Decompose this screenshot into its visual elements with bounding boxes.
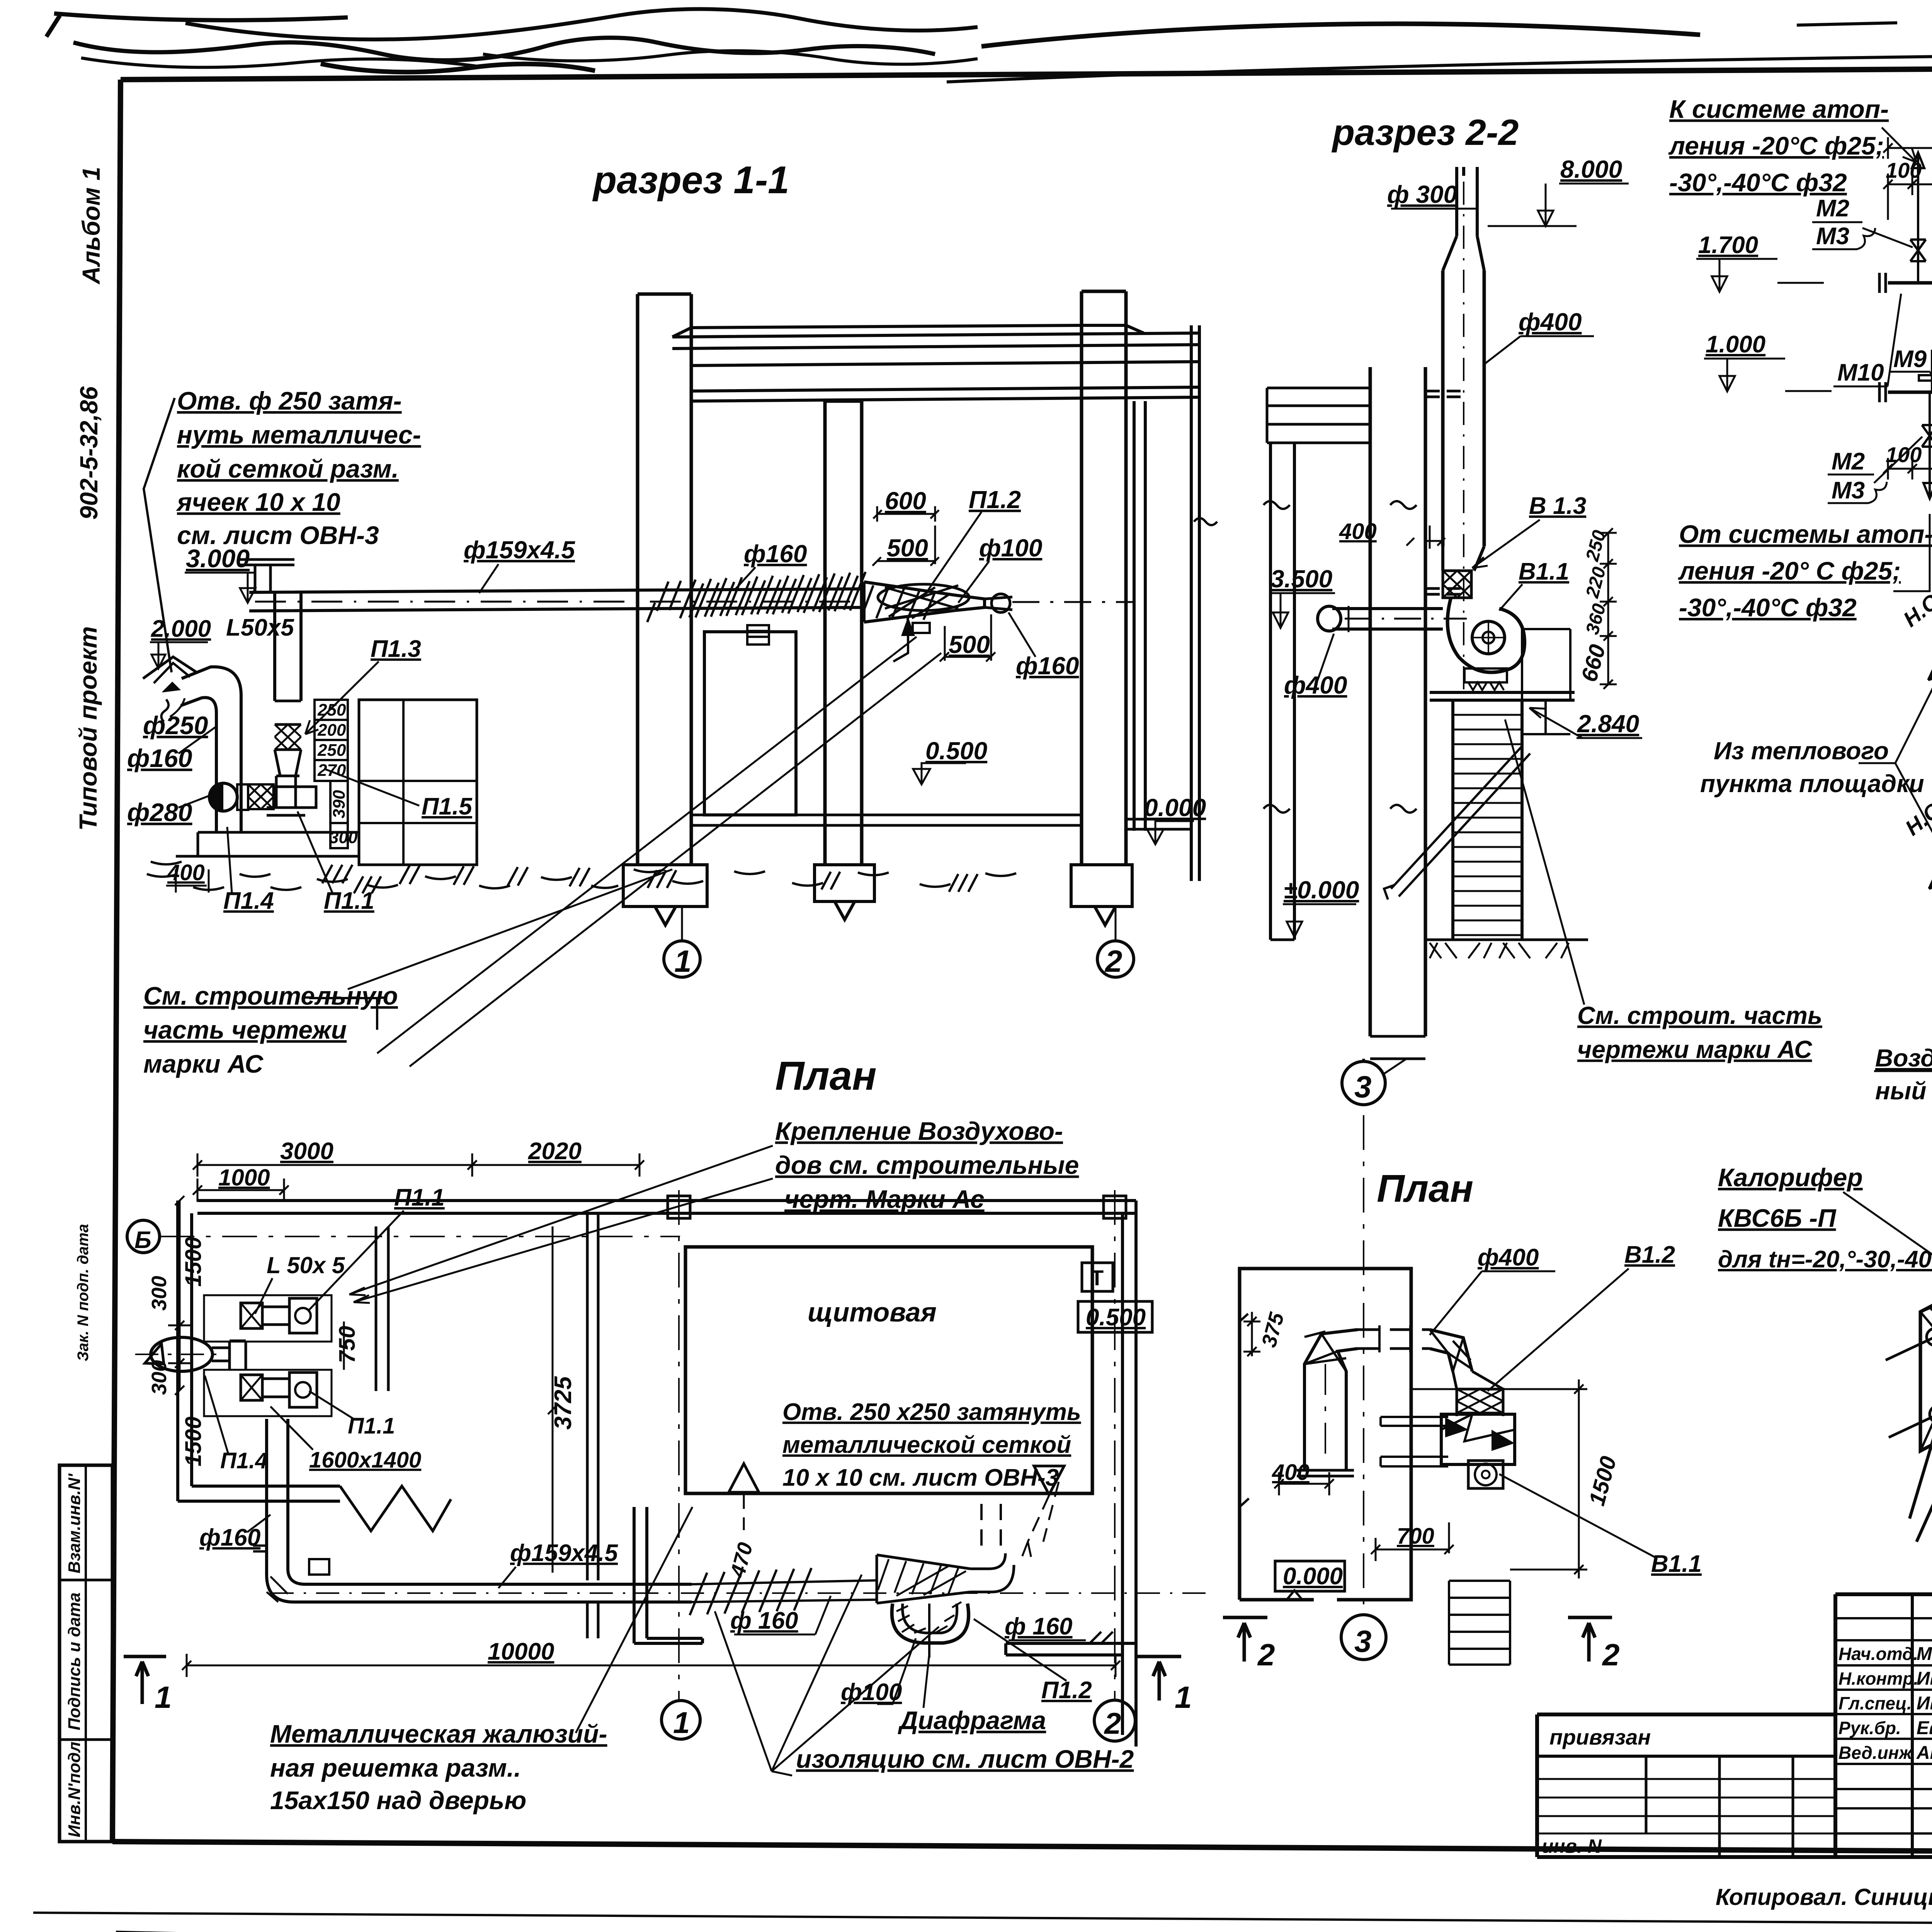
svg-text:1500: 1500 — [181, 1417, 206, 1466]
svg-text:3.000: 3.000 — [186, 544, 250, 573]
svg-text:См. строит. часть: См. строит. часть — [1577, 1002, 1822, 1029]
svg-text:П1.1: П1.1 — [348, 1413, 395, 1439]
svg-text:1.000: 1.000 — [1706, 331, 1765, 358]
svg-text:Евгеньев: Евгеньев — [1917, 1718, 1932, 1738]
svg-text:300: 300 — [329, 828, 358, 847]
svg-text:1: 1 — [155, 1680, 172, 1714]
svg-text:ный тип А1И010.000: ный тип А1И010.000 — [1875, 1077, 1932, 1105]
svg-text:400: 400 — [1339, 519, 1377, 544]
svg-text:L50х5: L50х5 — [226, 614, 294, 641]
svg-text:ф400: ф400 — [1478, 1244, 1539, 1271]
svg-text:Копировал. Синицына: Копировал. Синицына — [1716, 1884, 1932, 1910]
svg-text:См. строительную: См. строительную — [143, 981, 398, 1010]
svg-text:М2: М2 — [1832, 448, 1865, 475]
svg-text:750: 750 — [335, 1326, 360, 1363]
svg-text:металлической сеткой: металлической сеткой — [782, 1432, 1071, 1458]
svg-text:привязан: привязан — [1549, 1725, 1651, 1749]
svg-text:ячеек 10 х 10: ячеек 10 х 10 — [176, 488, 340, 516]
svg-text:15ах150 над дверью: 15ах150 над дверью — [270, 1786, 526, 1815]
svg-text:8.000: 8.000 — [1560, 155, 1622, 183]
svg-text:М3: М3 — [1832, 477, 1865, 504]
svg-text:дов см. строительные: дов см. строительные — [775, 1151, 1079, 1179]
svg-text:изоляцию см. лист ОВН-2: изоляцию см. лист ОВН-2 — [796, 1745, 1134, 1773]
svg-text:Отв. 250 х250 затянуть: Отв. 250 х250 затянуть — [782, 1399, 1081, 1425]
svg-text:К системе атоп-: К системе атоп- — [1669, 95, 1889, 123]
svg-text:Альбом 1: Альбом 1 — [77, 167, 105, 285]
svg-text:кой сеткой разм.: кой сеткой разм. — [177, 454, 399, 483]
svg-text:2: 2 — [1104, 1706, 1121, 1740]
svg-text:Подпись и дата: Подпись и дата — [65, 1592, 84, 1730]
svg-text:П1.5: П1.5 — [422, 793, 473, 820]
svg-text:Взам.инв.N': Взам.инв.N' — [65, 1473, 84, 1574]
svg-text:Нач.отд.: Нач.отд. — [1838, 1644, 1918, 1664]
svg-text:3725: 3725 — [550, 1376, 577, 1430]
svg-text:Гл.спец.: Гл.спец. — [1838, 1693, 1912, 1713]
svg-text:400: 400 — [1272, 1460, 1310, 1485]
svg-text:ф160: ф160 — [744, 540, 807, 568]
svg-text:ф 300: ф 300 — [1387, 180, 1457, 208]
svg-text:черт. Марки Ас: черт. Марки Ас — [784, 1185, 985, 1213]
svg-text:3: 3 — [1354, 1070, 1372, 1104]
svg-text:ф 160: ф 160 — [1005, 1613, 1073, 1640]
svg-text:200: 200 — [317, 721, 346, 740]
svg-text:0.500: 0.500 — [925, 737, 987, 765]
svg-text:100: 100 — [1886, 442, 1922, 467]
svg-text:0.500: 0.500 — [1086, 1304, 1146, 1331]
svg-text:ф400: ф400 — [1519, 308, 1582, 336]
svg-text:1: 1 — [674, 944, 692, 978]
svg-text:План: План — [1377, 1167, 1473, 1210]
svg-text:ф159х4.5: ф159х4.5 — [464, 536, 575, 564]
svg-text:Воздухосборник горизонталь-: Воздухосборник горизонталь- — [1875, 1044, 1932, 1072]
svg-text:П1.2: П1.2 — [1041, 1677, 1092, 1704]
svg-text:М2: М2 — [1816, 195, 1849, 222]
svg-text:П1.2: П1.2 — [969, 486, 1021, 514]
svg-text:1600х1400: 1600х1400 — [309, 1447, 421, 1473]
svg-text:ф100: ф100 — [979, 534, 1042, 562]
svg-text:±0.000: ±0.000 — [1284, 876, 1359, 904]
svg-text:3000: 3000 — [280, 1138, 333, 1165]
svg-text:Калорифер: Калорифер — [1718, 1163, 1863, 1192]
svg-text:1000: 1000 — [218, 1165, 270, 1190]
svg-text:Б: Б — [134, 1227, 151, 1253]
svg-text:3.500: 3.500 — [1270, 565, 1332, 593]
svg-text:Типовой проект: Типовой проект — [74, 626, 102, 831]
svg-text:Инв.N'подл.: Инв.N'подл. — [65, 1737, 84, 1837]
svg-text:ная решетка разм..: ная решетка разм.. — [270, 1753, 521, 1782]
svg-text:10000: 10000 — [488, 1638, 554, 1665]
svg-text:ф 160: ф 160 — [730, 1607, 798, 1634]
svg-text:В1.1: В1.1 — [1651, 1551, 1702, 1577]
svg-text:100: 100 — [1886, 158, 1922, 182]
svg-text:М10: М10 — [1837, 359, 1884, 386]
svg-text:Отв. ф 250 затя-: Отв. ф 250 затя- — [177, 386, 402, 415]
svg-text:2020: 2020 — [528, 1138, 582, 1165]
svg-text:Металлическая жалюзий-: Металлическая жалюзий- — [270, 1719, 607, 1748]
svg-text:Иванов: Иванов — [1917, 1668, 1932, 1689]
svg-text:М3: М3 — [1816, 223, 1849, 250]
svg-text:чертежи марки АС: чертежи марки АС — [1577, 1036, 1812, 1063]
svg-text:В1.2: В1.2 — [1624, 1242, 1675, 1268]
svg-text:0.000: 0.000 — [1283, 1563, 1343, 1590]
svg-text:500: 500 — [949, 631, 990, 658]
svg-text:1: 1 — [673, 1706, 690, 1740]
svg-text:ф160: ф160 — [1016, 652, 1079, 680]
svg-text:-30°,-40°С ф32: -30°,-40°С ф32 — [1669, 168, 1847, 197]
svg-text:инв. N: инв. N — [1542, 1835, 1602, 1857]
svg-text:L 50х 5: L 50х 5 — [267, 1252, 345, 1278]
svg-text:марки АС: марки АС — [143, 1049, 264, 1078]
svg-text:500: 500 — [887, 534, 928, 562]
svg-text:Вед.инж: Вед.инж — [1838, 1743, 1913, 1763]
svg-text:нуть металличес-: нуть металличес- — [177, 420, 421, 449]
svg-text:П1.3: П1.3 — [371, 636, 421, 662]
svg-text:Крепление Воздухово-: Крепление Воздухово- — [775, 1117, 1063, 1145]
svg-text:ф160: ф160 — [127, 744, 192, 772]
svg-text:для tн=-20,°-30,-40°С: для tн=-20,°-30,-40°С — [1718, 1246, 1932, 1273]
svg-text:Зак. N подп. дата: Зак. N подп. дата — [75, 1224, 92, 1362]
svg-text:ф159х4.5: ф159х4.5 — [510, 1540, 618, 1566]
svg-text:-30°,-40°С ф32: -30°,-40°С ф32 — [1679, 593, 1857, 622]
svg-text:10 х 10 см. лист ОВН-3: 10 х 10 см. лист ОВН-3 — [782, 1464, 1059, 1491]
svg-text:2.000: 2.000 — [151, 616, 211, 642]
svg-text:П1.1: П1.1 — [394, 1184, 445, 1211]
svg-text:Н.контр.: Н.контр. — [1838, 1668, 1918, 1689]
svg-text:ф280: ф280 — [127, 798, 192, 827]
svg-text:ления -20°С ф25;: ления -20°С ф25; — [1668, 131, 1884, 160]
svg-text:3: 3 — [1354, 1624, 1372, 1658]
svg-text:В1.1: В1.1 — [1519, 558, 1569, 585]
svg-text:902-5-32,86: 902-5-32,86 — [75, 386, 103, 520]
svg-text:От системы атоп-: От системы атоп- — [1679, 520, 1932, 548]
svg-text:1: 1 — [1175, 1680, 1192, 1714]
svg-text:пункта площадки: пункта площадки — [1700, 770, 1924, 798]
svg-text:Диафрагма: Диафрагма — [898, 1706, 1046, 1735]
svg-text:ф400: ф400 — [1284, 671, 1347, 699]
svg-text:400: 400 — [167, 860, 205, 885]
svg-text:1.700: 1.700 — [1698, 232, 1758, 259]
svg-text:Андрианова: Андрианова — [1916, 1743, 1932, 1763]
svg-text:1500: 1500 — [181, 1237, 206, 1287]
svg-text:390: 390 — [330, 790, 349, 818]
svg-text:щитовая: щитовая — [808, 1297, 937, 1327]
svg-text:2.840: 2.840 — [1577, 710, 1639, 738]
svg-text:Из теплового: Из теплового — [1714, 737, 1889, 765]
svg-text:часть чертежи: часть чертежи — [143, 1015, 347, 1044]
svg-text:Иванов: Иванов — [1917, 1693, 1932, 1714]
svg-text:0.000: 0.000 — [1144, 794, 1206, 821]
svg-text:М9: М9 — [1893, 346, 1927, 372]
svg-text:300: 300 — [148, 1276, 171, 1311]
svg-text:2: 2 — [1602, 1638, 1620, 1672]
svg-text:Молчанов: Молчанов — [1917, 1644, 1932, 1664]
svg-text:700: 700 — [1397, 1524, 1434, 1549]
svg-text:2: 2 — [1257, 1638, 1275, 1672]
svg-text:250: 250 — [317, 701, 346, 719]
svg-text:В 1.3: В 1.3 — [1529, 493, 1586, 519]
svg-text:КВС6Б -П: КВС6Б -П — [1718, 1204, 1837, 1232]
svg-text:250: 250 — [317, 741, 346, 760]
svg-text:270: 270 — [317, 761, 346, 780]
svg-text:600: 600 — [885, 487, 926, 515]
svg-text:разрез 1-1: разрез 1-1 — [592, 158, 789, 202]
svg-text:ления -20° С ф25;: ления -20° С ф25; — [1678, 556, 1901, 585]
svg-text:Т: Т — [1090, 1265, 1104, 1290]
svg-text:2: 2 — [1104, 944, 1122, 978]
svg-text:ф250: ф250 — [143, 711, 208, 740]
svg-text:разрез 2-2: разрез 2-2 — [1331, 112, 1519, 153]
svg-text:План: План — [775, 1053, 877, 1099]
svg-text:Рук.бр.: Рук.бр. — [1838, 1718, 1901, 1738]
